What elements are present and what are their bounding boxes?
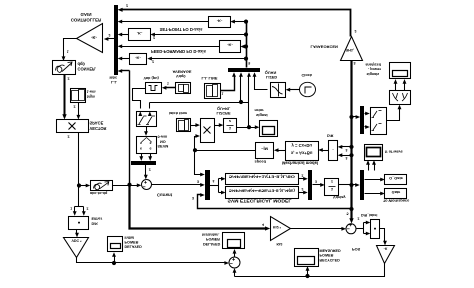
svg-text:2: 2 [126,4,128,8]
svg-text:GAIN: GAIN [81,12,92,17]
switch block SW2 [371,108,387,135]
wire Z1 output to scope SC3 [237,127,257,129]
gain block K1 (gain controller triangle) [77,24,103,53]
svg-text:5: 5 [248,61,250,65]
wire pulse to SW1 [133,89,146,109]
svg-text:2: 2 [109,33,111,37]
block dq0 conversion U2 [53,61,76,75]
wire voltage feedback to MB2 [198,195,352,209]
svg-text:2: 2 [149,168,151,172]
block DR1 rad/deg [329,141,338,161]
mux bar MB3 (svm right) [308,170,312,200]
wire bus to K1 [107,38,115,40]
svg-text:3: 3 [315,180,317,184]
block SH2 (sample hold) [177,119,191,132]
svg-text:2: 2 [358,216,360,220]
gain triangle POS (points down) [377,246,395,264]
node bus-z2 [349,183,353,187]
display block D1 (delayed power) [108,237,123,252]
svg-text:To Workspace: To Workspace [383,199,410,204]
wires DM2 to goto blocks [365,179,382,181]
wire SW1 to IC block [146,127,148,133]
svg-text:- power: - power [368,67,382,71]
gain box G4 [130,54,147,65]
svg-text:speed: speed [255,159,267,164]
svg-text:latch time: latch time [169,111,188,116]
goto block GT2 [385,189,407,199]
block dot product P1 [69,217,89,230]
wire X1 down to dq2 / power branch [78,133,80,207]
demux bar DM2 [360,170,364,200]
svg-text:2: 2 [68,135,70,139]
scope SC1 [390,63,411,79]
svg-text:Vab (pu): Vab (pu) [144,76,160,81]
svg-text:s: s [149,141,151,145]
node wm tap [239,100,243,104]
sum junction S2 [346,224,356,234]
svg-text:Mechanical model: Mechanical model [282,160,318,165]
svm model block SV2 [226,187,299,199]
wire feedback thick to gain K2 [130,185,267,229]
svg-text:SPACE: SPACE [90,121,104,126]
svg-text:b/gm: b/gm [87,94,95,98]
svg-text:LIZCRE: LIZCRE [217,111,231,116]
svg-text:MEASURED: MEASURED [320,249,341,253]
wire W3 with gain box [121,34,129,36]
svg-text:D/R: D/R [327,134,334,138]
svg-text:O_Gate: O_Gate [389,176,404,181]
wire S2 fork to power block P2 [357,228,364,230]
svg-text:SET-POINT FO D-axis: SET-POINT FO D-axis [160,27,203,32]
wire fork into dot-product block [75,206,84,208]
quantizer block Q1 [271,83,286,98]
svg-text:LAVAEORCEN: LAVAEORCEN [311,44,339,49]
svg-text:2: 2 [153,36,155,40]
svg-text:1: 1 [222,92,224,96]
svg-text:Vdelay: Vdelay [333,195,346,200]
block dot product P2 [371,220,380,239]
svg-text:2: 2 [302,187,304,191]
wire AVG1 to PS1 [165,87,176,89]
unit delay Z2 (1/z) [325,179,339,196]
wire P1 to VDC gain [76,230,78,235]
svg-text:0-wm: 0-wm [158,135,168,139]
svg-text:L-L: L-L [111,80,118,84]
wire P2 to POS gain [380,229,385,243]
svg-text:CONTROLLER: CONTROLLER [71,18,102,23]
svg-text:D/K: D/K [92,222,99,226]
state space block SS1 [286,142,319,161]
svg-text:y = Cx+Du: y = Cx+Du [291,143,312,148]
svg-text:5: 5 [347,212,349,216]
gain box G3 [220,41,241,53]
scope SC2 [365,145,383,161]
wire M1 input from 1z out [248,76,250,128]
svg-text:1: 1 [70,207,72,211]
svg-text:s: s [140,141,142,145]
svg-text:3: 3 [197,179,199,183]
nodes on bus [349,145,353,149]
svg-text:DELAYED: DELAYED [203,242,221,246]
wire M1 input from quantizer [255,76,268,90]
wire S3 to display D3 [234,253,236,257]
wires IC1 to mux M0 [141,154,143,158]
svg-text:fr of wave: fr of wave [385,149,403,153]
wire branch up to bar B1 [129,71,131,185]
wire tap to display2 [307,270,309,277]
svg-text:Initial: Initial [125,235,135,239]
node wm to X2 [193,148,197,152]
wire L-L line block to M1 [221,76,235,91]
block M1 measure [256,143,274,159]
svg-text:4: 4 [262,222,264,226]
svg-text:Instantan.: Instantan. [202,233,219,237]
svg-text:POS: POS [352,247,361,252]
wires DM2 to SC2 [368,164,370,171]
block LL1 [205,84,221,99]
node 1z tap [247,125,251,129]
svg-text:e: e [149,147,151,151]
wire M1 input from wm line [240,76,242,103]
wire dq0-conv to product (vector) [64,75,66,116]
svg-text:-K-: -K- [137,31,143,36]
wire D/R to SS1 [322,150,329,152]
svg-text:AVERAGE: AVERAGE [173,69,192,74]
svg-text:~|M: ~|M [261,147,268,152]
gain box G2 [129,29,151,41]
svg-text:Current: Current [157,192,173,197]
gain triangle VDC (points down) [64,238,89,258]
svg-text:5H1,: 5H1, [346,48,354,52]
svg-text:e: e [140,147,142,151]
bus riser from mux M1 [246,22,248,68]
clock source CK1 [300,82,316,96]
svg-text:signals: signals [367,72,380,76]
wire tap up to display1 [114,256,116,263]
svg-text:POWER: POWER [206,237,220,241]
svg-text:NO: NO [160,139,166,143]
wire G3 input from bus [244,46,247,48]
node bus tap 117 [349,115,353,119]
svg-text:2: 2 [87,207,89,211]
svm model block SV1 [226,174,299,185]
svg-text:rotor: rotor [255,108,265,113]
node X1-output branch [77,183,81,187]
node display1 tap [112,261,116,265]
wire MB2 fork to model blocks [210,185,219,187]
svg-text:2: 2 [74,105,76,109]
svg-text:z: z [229,119,231,124]
svg-text:QUAN: QUAN [265,70,277,75]
wire S1 to SVM mux [152,184,202,186]
svg-text:5/4P/4E/4(4+4/5E/T3-8.)L/4(E): 5/4P/4E/4(4+4/5E/T3-8.)L/4(E) [229,188,296,193]
unit delay block Z1 (1/z) [224,119,237,133]
svg-text:2: 2 [355,29,357,33]
wire bottom into sum S3 [234,272,236,277]
goto block GT1 [385,175,407,185]
mux bar M1 (horizontal) [228,68,260,72]
demux block U4 (goto curves) [390,91,411,105]
svg-text:2: 2 [152,60,154,64]
svg-text:signal: signal [256,113,268,118]
wire K1 to dq0-conv [64,39,77,58]
gain box G1 [209,17,231,28]
wire Z2 to bus [339,184,352,186]
svg-text:1-wm: 1-wm [87,90,96,94]
wire M0 to sum S1 [145,165,147,177]
svg-text:CONVER.: CONVER. [78,67,97,72]
svg-text:Either: Either [92,217,103,221]
wire POS to bottom run [235,264,385,277]
svg-text:3: 3 [192,196,194,200]
mux bar B1 (left tall bar) [114,5,118,75]
svg-text:RECYCLED: RECYCLED [320,258,341,262]
svg-text:Gate: Gate [392,190,401,195]
bus main vertical (thick) [350,61,352,220]
wire wm run to switch [150,102,249,104]
svg-text:L-L LINE: L-L LINE [202,76,218,81]
svg-text:3: 3 [346,156,348,160]
svg-text:SVM ETECLRICAL MODEL: SVM ETECLRICAL MODEL [228,198,292,203]
svg-text:z: z [331,179,333,184]
product block X1 (space vector) [57,120,89,133]
inverter gain triangle T3 [341,37,363,61]
display block D3 (undelayed power) [223,233,245,249]
wire W2 with gain box [121,21,209,23]
svg-text:analyzed: analyzed [366,62,382,66]
svg-text:SEVM: SEVM [158,144,169,148]
svg-text:-K-: -K- [91,35,97,40]
svg-text:Kt2: Kt2 [277,242,283,246]
svg-text:LIZED: LIZED [266,75,277,80]
svg-text:2: 2 [302,173,304,177]
svg-text:DELAYED: DELAYED [125,245,143,249]
switch block SW1 [137,112,157,127]
wire VDC to sum S3 (bottom-left run) [77,258,226,263]
svg-text:-K-: -K- [227,43,233,48]
svg-text:Kt2 *: Kt2 * [273,225,282,229]
svg-text:x, = Ax+Bu: x, = Ax+Bu [291,150,313,155]
block IC1 initial currents [137,137,157,154]
wire bus to demux DM1 [352,116,357,118]
svg-text:D/R_label: D/R_label [361,213,377,217]
svg-text:-K-: -K- [135,56,141,61]
wire state-space to M1 [278,150,286,152]
svg-text:dq0: dq0 [78,61,86,66]
wire SW2 to demux U4 [387,108,400,121]
svg-text:Vdq0: Vdq0 [176,74,186,79]
wire wm long run [195,150,256,152]
sum junction S1 [142,180,152,190]
wire MB3 to delay Z2 [313,184,322,186]
wire branch to abc-to-dq block [79,185,88,187]
wires DM1 to switch SW2 [365,113,367,115]
wire G2 input from bus [154,34,247,36]
sum junction S3 [229,257,240,268]
svg-text:FEED-FORWARD FO D-axis: FEED-FORWARD FO D-axis [151,49,207,54]
wire X2 to 1z [215,125,221,127]
wire wm up to X2 input [195,137,197,151]
svg-text:POWER: POWER [320,253,334,257]
wire K2 to sum S2 [291,228,343,230]
node display2 tap [305,274,309,278]
wire SH1 to product [78,103,80,117]
wire dq2 to S1 [113,185,139,187]
wire SH2 to X2 [191,125,197,127]
svg-text:QU+RL: QU+RL [217,106,231,111]
svg-text:Iabc: Iabc [110,75,118,79]
svg-text:abc-to-dq: abc-to-dq [90,191,108,195]
mux bar M0 [131,161,156,165]
wire CK1 to Q1 [289,89,300,91]
block abc-to-dq U3 [91,181,113,191]
svg-text:-K-: -K- [217,18,223,23]
svg-text:3: 3 [346,148,348,152]
wire wm to MB2 top input [195,151,202,175]
wires bus to DR1 [341,146,352,148]
gain triangle K2 (Kt) [271,217,291,241]
svg-text:5/4P/8E/4(4+1/(T3-8.)L/8O: 5/4P/8E/4(4+1/(T3-8.)L/8O [229,175,295,180]
wires SV to right bar [299,178,305,180]
wire bus to DM2 [352,184,357,186]
wire G1 input from bus [234,21,247,23]
svg-text:1: 1 [167,82,169,86]
source block PS1 (pulse) [146,83,162,94]
wire G4 input from bus [151,58,247,60]
node feedback branch [127,183,131,187]
mux bar MB2 (svm left) [205,170,210,200]
svg-text:3: 3 [354,61,356,65]
scope SC3 [260,121,278,137]
svg-text:2: 2 [68,77,70,81]
svg-text:4: 4 [213,179,215,183]
svg-text:VECTOR: VECTOR [90,126,107,131]
wires U4 to scope SC1 [395,83,397,91]
wire W4 with gain box [121,46,220,48]
display block D2 (measured power) [295,249,319,267]
demux bar DM1 [360,106,364,134]
svg-text:-K: -K [384,247,388,251]
svg-text:1: 1 [67,50,69,54]
block AVG1 [176,83,191,94]
wire W1 top feedback [121,10,351,37]
wire W5 with gain box [121,58,130,60]
svg-text:VDC *: VDC * [72,239,83,243]
product block X2 [201,119,215,143]
svg-text:POWER: POWER [125,240,139,244]
block sample-hold SH1 [71,89,86,103]
svg-text:Clock: Clock [302,73,313,78]
